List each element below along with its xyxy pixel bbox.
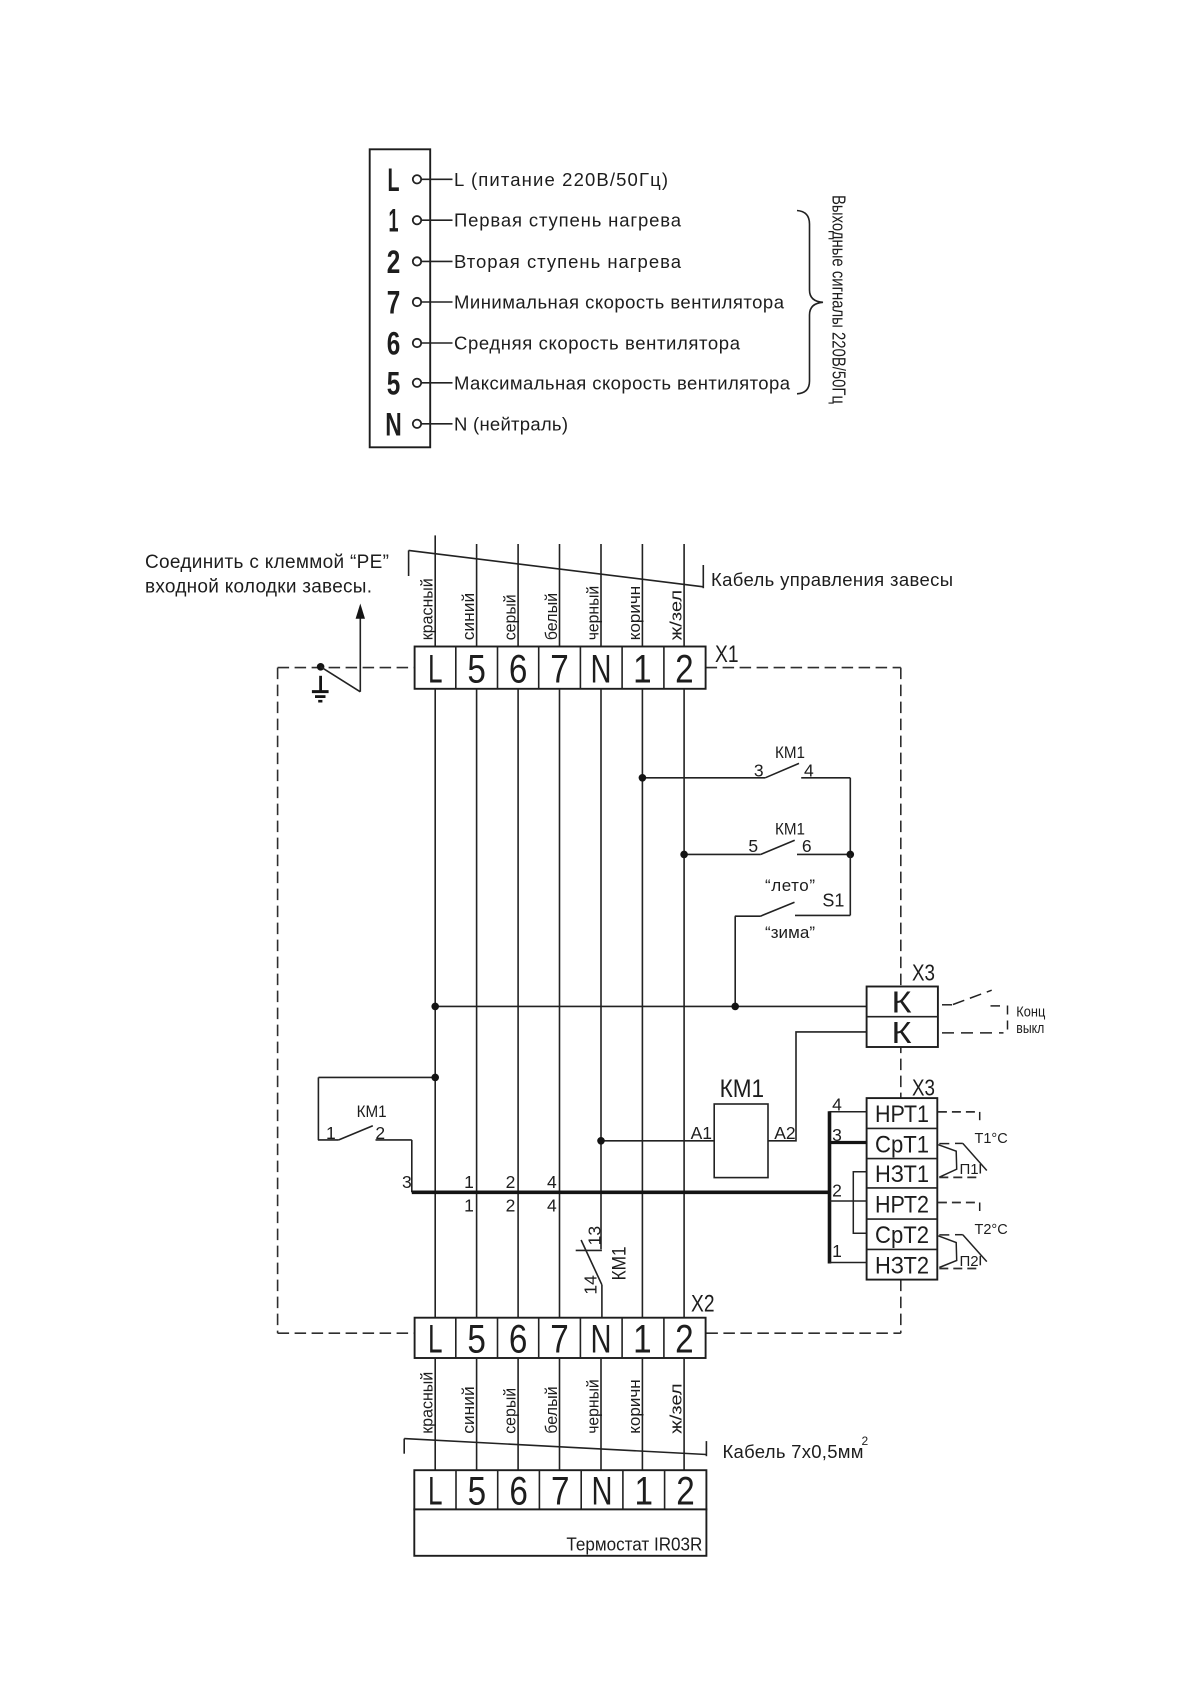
svg-text:N: N: [591, 648, 612, 692]
svg-text:5: 5: [387, 365, 401, 401]
svg-text:6: 6: [509, 1317, 528, 1361]
svg-text:4: 4: [547, 1196, 557, 1216]
svg-text:N: N: [385, 406, 402, 442]
wire ж/зел upper: [683, 544, 685, 647]
svg-text:1: 1: [832, 1241, 842, 1261]
wire pin2 to НРТ2: [830, 1200, 867, 1202]
wire N (черный) contact 14 to X2: [601, 1285, 603, 1318]
wire from terminal 1: [422, 219, 453, 221]
node on wire L: [431, 1003, 439, 1011]
sensor T2 dashed wire НЗТ2: [939, 1268, 980, 1270]
thermostat terminal strip: [414, 1469, 706, 1513]
svg-text:3: 3: [402, 1172, 412, 1192]
svg-text:НЗТ1: НЗТ1: [875, 1161, 929, 1188]
svg-text:2: 2: [506, 1172, 516, 1192]
switch S1: [735, 854, 851, 916]
wire rail contact4 to contact6: [849, 778, 851, 855]
wire белый lower: [559, 1358, 561, 1470]
node rail junction: [847, 851, 855, 859]
wire from terminal L: [422, 178, 453, 180]
svg-text:синий: синий: [460, 1386, 478, 1434]
svg-text:НЗТ2: НЗТ2: [875, 1252, 929, 1279]
coil KM1: [714, 1104, 768, 1178]
sensor T1 contact blade: [939, 1143, 987, 1173]
terminal 2 of top box: [387, 244, 421, 280]
svg-text:серый: серый: [502, 1388, 520, 1434]
wire синий upper: [476, 544, 478, 647]
sensor T1 dashed wire НЗТ1: [939, 1176, 980, 1178]
svg-text:2: 2: [675, 1317, 694, 1361]
dashed enclosure right side: [900, 668, 902, 1334]
contact KM1 1-2: [318, 1077, 435, 1192]
svg-text:7: 7: [550, 648, 569, 692]
svg-text:СрТ2: СрТ2: [875, 1222, 929, 1249]
sensor T2 dashed wire НРТ2: [938, 1203, 980, 1212]
thermostat body: [414, 1509, 706, 1555]
terminal N of top box: [385, 406, 421, 442]
cable callout top: right tick: [702, 565, 704, 588]
sensor T2 bracket СрТ2-НЗТ2: [938, 1236, 957, 1268]
svg-text:N: N: [591, 1317, 612, 1361]
wire белый upper: [559, 544, 561, 647]
terminal 7 of top box: [387, 285, 421, 321]
wire pin4 to НРТ1: [830, 1111, 867, 1113]
svg-text:N (нейтраль): N (нейтраль): [454, 413, 568, 434]
svg-text:L: L: [388, 162, 400, 198]
svg-text:К: К: [892, 1015, 912, 1050]
svg-text:6: 6: [387, 326, 401, 362]
cable callout bottom: left tick: [403, 1439, 405, 1454]
wire S1 common down: [734, 916, 736, 1006]
dashed enclosure top-right segment: [706, 667, 901, 669]
svg-text:N: N: [592, 1469, 613, 1513]
cable callout top: diagonal leader: [409, 550, 704, 586]
svg-text:Вторая ступень нагрева: Вторая ступень нагрева: [454, 251, 682, 272]
svg-text:черный: черный: [584, 586, 602, 641]
svg-text:2: 2: [375, 1123, 385, 1143]
svg-text:Средняя скорость вентилятора: Средняя скорость вентилятора: [454, 333, 741, 354]
svg-text:7: 7: [387, 285, 401, 321]
terminal block X2: [415, 1317, 706, 1361]
wire 7 (белый) X1 to X2: [559, 689, 561, 1318]
svg-text:КМ1: КМ1: [775, 819, 805, 838]
svg-text:Минимальная скорость вентилято: Минимальная скорость вентилятора: [454, 292, 785, 313]
svg-text:S1: S1: [822, 890, 844, 910]
svg-text:A2: A2: [774, 1123, 795, 1143]
sensor T1 bracket СрТ1-НЗТ1: [938, 1145, 957, 1178]
wire синий lower: [476, 1358, 478, 1470]
svg-text:14: 14: [580, 1275, 600, 1295]
svg-text:2: 2: [832, 1181, 842, 1201]
wire 5 (синий) X1 to X2: [476, 689, 478, 1318]
svg-text:5: 5: [748, 836, 758, 856]
svg-text:красный: красный: [419, 1372, 437, 1434]
svg-text:5: 5: [468, 1469, 487, 1513]
wire from terminal N: [422, 423, 453, 425]
svg-text:X3: X3: [912, 1075, 935, 1101]
wire from terminal 6: [422, 342, 453, 344]
wire 6 (серый) X1 to X2: [517, 689, 519, 1318]
svg-text:L: L: [428, 1317, 443, 1361]
svg-text:6: 6: [509, 648, 528, 692]
svg-text:выкл: выкл: [1016, 1021, 1044, 1037]
svg-text:КМ1: КМ1: [357, 1102, 387, 1121]
svg-text:Т2°С: Т2°С: [975, 1222, 1008, 1238]
sensor T1 dashed wire НРТ1: [938, 1112, 980, 1120]
wire node L to X3 K: [435, 1005, 866, 1007]
cable callout bottom: diagonal leader: [404, 1439, 706, 1455]
terminal 1 of top box: [389, 203, 422, 239]
svg-text:Т1°С: Т1°С: [975, 1131, 1008, 1147]
svg-text:A1: A1: [691, 1123, 712, 1143]
svg-text:6: 6: [802, 836, 812, 856]
svg-text:2: 2: [675, 648, 694, 692]
svg-text:6: 6: [509, 1469, 528, 1513]
contact KM1 3-4: [642, 763, 850, 777]
svg-text:L: L: [428, 648, 443, 692]
wire PE diagonal to arrow: [321, 667, 361, 692]
terminal block X3 lower (sensor contacts): [867, 1098, 938, 1280]
svg-text:КМ1: КМ1: [775, 743, 805, 762]
connector box top (terminal outline): [370, 149, 431, 447]
thick bar X3 pins: [828, 1111, 832, 1263]
svg-text:3: 3: [754, 761, 764, 781]
contact KM1 5-6: [684, 840, 850, 854]
sensor T2 contact blade: [939, 1235, 987, 1266]
svg-text:L (питание 220В/50Гц): L (питание 220В/50Гц): [454, 169, 668, 190]
svg-text:1: 1: [326, 1123, 336, 1143]
wire красный upper: [434, 535, 436, 646]
wire 1 (коричн) X1 to X2: [641, 689, 643, 1318]
wire from terminal 2: [422, 260, 453, 262]
svg-text:НРТ2: НРТ2: [875, 1191, 929, 1218]
wire X3 lower K to A2: [768, 1032, 867, 1141]
node on wire L (KM1 1-2 tap): [431, 1074, 439, 1082]
svg-text:Максимальная скорость вентилят: Максимальная скорость вентилятора: [454, 372, 791, 393]
svg-text:белый: белый: [543, 593, 561, 641]
thick bus wire: [412, 1191, 830, 1195]
svg-text:Выходные сигналы 220В/50Гц: Выходные сигналы 220В/50Гц: [829, 195, 849, 404]
svg-text:КМ1: КМ1: [720, 1075, 765, 1103]
svg-text:5: 5: [467, 648, 486, 692]
svg-text:1: 1: [633, 648, 652, 692]
svg-text:7: 7: [550, 1317, 569, 1361]
wire pin1 to НЗТ2: [830, 1262, 867, 1264]
wire коричн upper: [641, 544, 643, 647]
wire loop НЗТ1 to СрТ2: [853, 1172, 866, 1234]
svg-text:1: 1: [464, 1196, 474, 1216]
ground symbol: [312, 676, 329, 701]
svg-text:ж/зел: ж/зел: [668, 590, 686, 641]
svg-text:5: 5: [467, 1317, 486, 1361]
svg-text:Соединить с клеммой “PE”: Соединить с клеммой “PE”: [145, 552, 389, 573]
terminal 5 of top box: [387, 365, 421, 401]
cable callout bottom: right tick: [705, 1441, 707, 1456]
wire from terminal 7: [422, 301, 453, 303]
node PE junction dot: [317, 663, 325, 671]
svg-text:2: 2: [676, 1469, 695, 1513]
brace outputs group: [797, 211, 823, 394]
svg-text:белый: белый: [543, 1386, 561, 1434]
cable callout top: left tick: [408, 550, 410, 576]
wire красный lower: [434, 1358, 436, 1470]
svg-text:П1: П1: [960, 1161, 979, 1178]
svg-text:X1: X1: [715, 641, 739, 668]
svg-text:синий: синий: [460, 593, 478, 641]
wire L (красный) X1 to X2: [434, 689, 436, 1318]
svg-text:НРТ1: НРТ1: [875, 1101, 929, 1128]
svg-text:2: 2: [862, 1434, 869, 1448]
terminal 6 of top box: [387, 326, 421, 362]
svg-text:X3: X3: [912, 960, 935, 986]
arrow to PE note: [356, 604, 365, 692]
node on wire 2: [680, 851, 688, 859]
svg-text:1: 1: [633, 1317, 652, 1361]
contact KM1 13-14: [576, 1240, 602, 1285]
svg-text:13: 13: [584, 1226, 604, 1245]
svg-text:4: 4: [547, 1172, 557, 1192]
svg-text:“лето”: “лето”: [765, 876, 815, 895]
svg-text:серый: серый: [502, 594, 520, 640]
terminal block X1: [415, 647, 706, 692]
svg-text:КМ1: КМ1: [609, 1246, 630, 1280]
svg-text:Термостат IR03R: Термостат IR03R: [566, 1535, 702, 1555]
svg-text:2: 2: [506, 1196, 516, 1216]
svg-text:красный: красный: [419, 578, 437, 640]
terminal L of top box: [388, 162, 422, 198]
dashed enclosure bottom-left segment: [278, 1332, 416, 1334]
svg-text:X2: X2: [691, 1291, 715, 1318]
limit switch dashed contact: [942, 990, 1008, 1033]
svg-text:Кабель 7х0,5мм: Кабель 7х0,5мм: [723, 1441, 864, 1462]
wire 2 (ж/зел) X1 to X2: [683, 689, 685, 1318]
node on wire N: [597, 1137, 605, 1145]
svg-text:П2: П2: [960, 1253, 979, 1270]
terminal block X3 upper (K K): [867, 985, 938, 1050]
wire pin3 to СрТ1 (thick): [830, 1141, 867, 1144]
wire N branch to A1: [601, 1140, 714, 1142]
wire from terminal 5: [422, 382, 453, 384]
dashed enclosure left side: [277, 668, 279, 1334]
label Кабель 7х0,5мм2: [723, 1434, 869, 1462]
wire коричн lower: [641, 1358, 643, 1470]
svg-text:1: 1: [389, 203, 399, 239]
svg-text:коричн: коричн: [626, 586, 644, 641]
svg-text:“зима”: “зима”: [765, 923, 815, 942]
dashed enclosure bottom-right segment: [706, 1332, 900, 1334]
node S1 branch: [731, 1003, 739, 1011]
dashed enclosure top-left segment: [278, 667, 415, 669]
svg-text:2: 2: [387, 244, 401, 280]
wire серый lower: [517, 1358, 519, 1470]
svg-text:L: L: [428, 1469, 443, 1513]
svg-text:СрТ1: СрТ1: [875, 1131, 929, 1158]
svg-text:Конц: Конц: [1016, 1005, 1045, 1021]
svg-text:входной колодки завесы.: входной колодки завесы.: [145, 576, 372, 597]
wire серый upper: [517, 544, 519, 647]
svg-text:Кабель управления завесы: Кабель управления завесы: [711, 569, 953, 590]
wire черный lower: [600, 1358, 602, 1470]
wire N (черный) X1 to contact 13: [600, 689, 602, 1250]
svg-text:4: 4: [804, 761, 814, 781]
svg-text:ж/зел: ж/зел: [668, 1383, 686, 1434]
svg-text:1: 1: [464, 1172, 474, 1192]
svg-text:Первая ступень нагрева: Первая ступень нагрева: [454, 210, 682, 231]
svg-text:коричн: коричн: [626, 1379, 644, 1434]
node on wire 1: [639, 774, 647, 782]
wire черный upper: [600, 544, 602, 647]
svg-text:черный: черный: [584, 1379, 602, 1434]
svg-text:1: 1: [635, 1469, 654, 1513]
svg-text:7: 7: [551, 1469, 570, 1513]
wire ж/зел lower: [683, 1358, 685, 1470]
